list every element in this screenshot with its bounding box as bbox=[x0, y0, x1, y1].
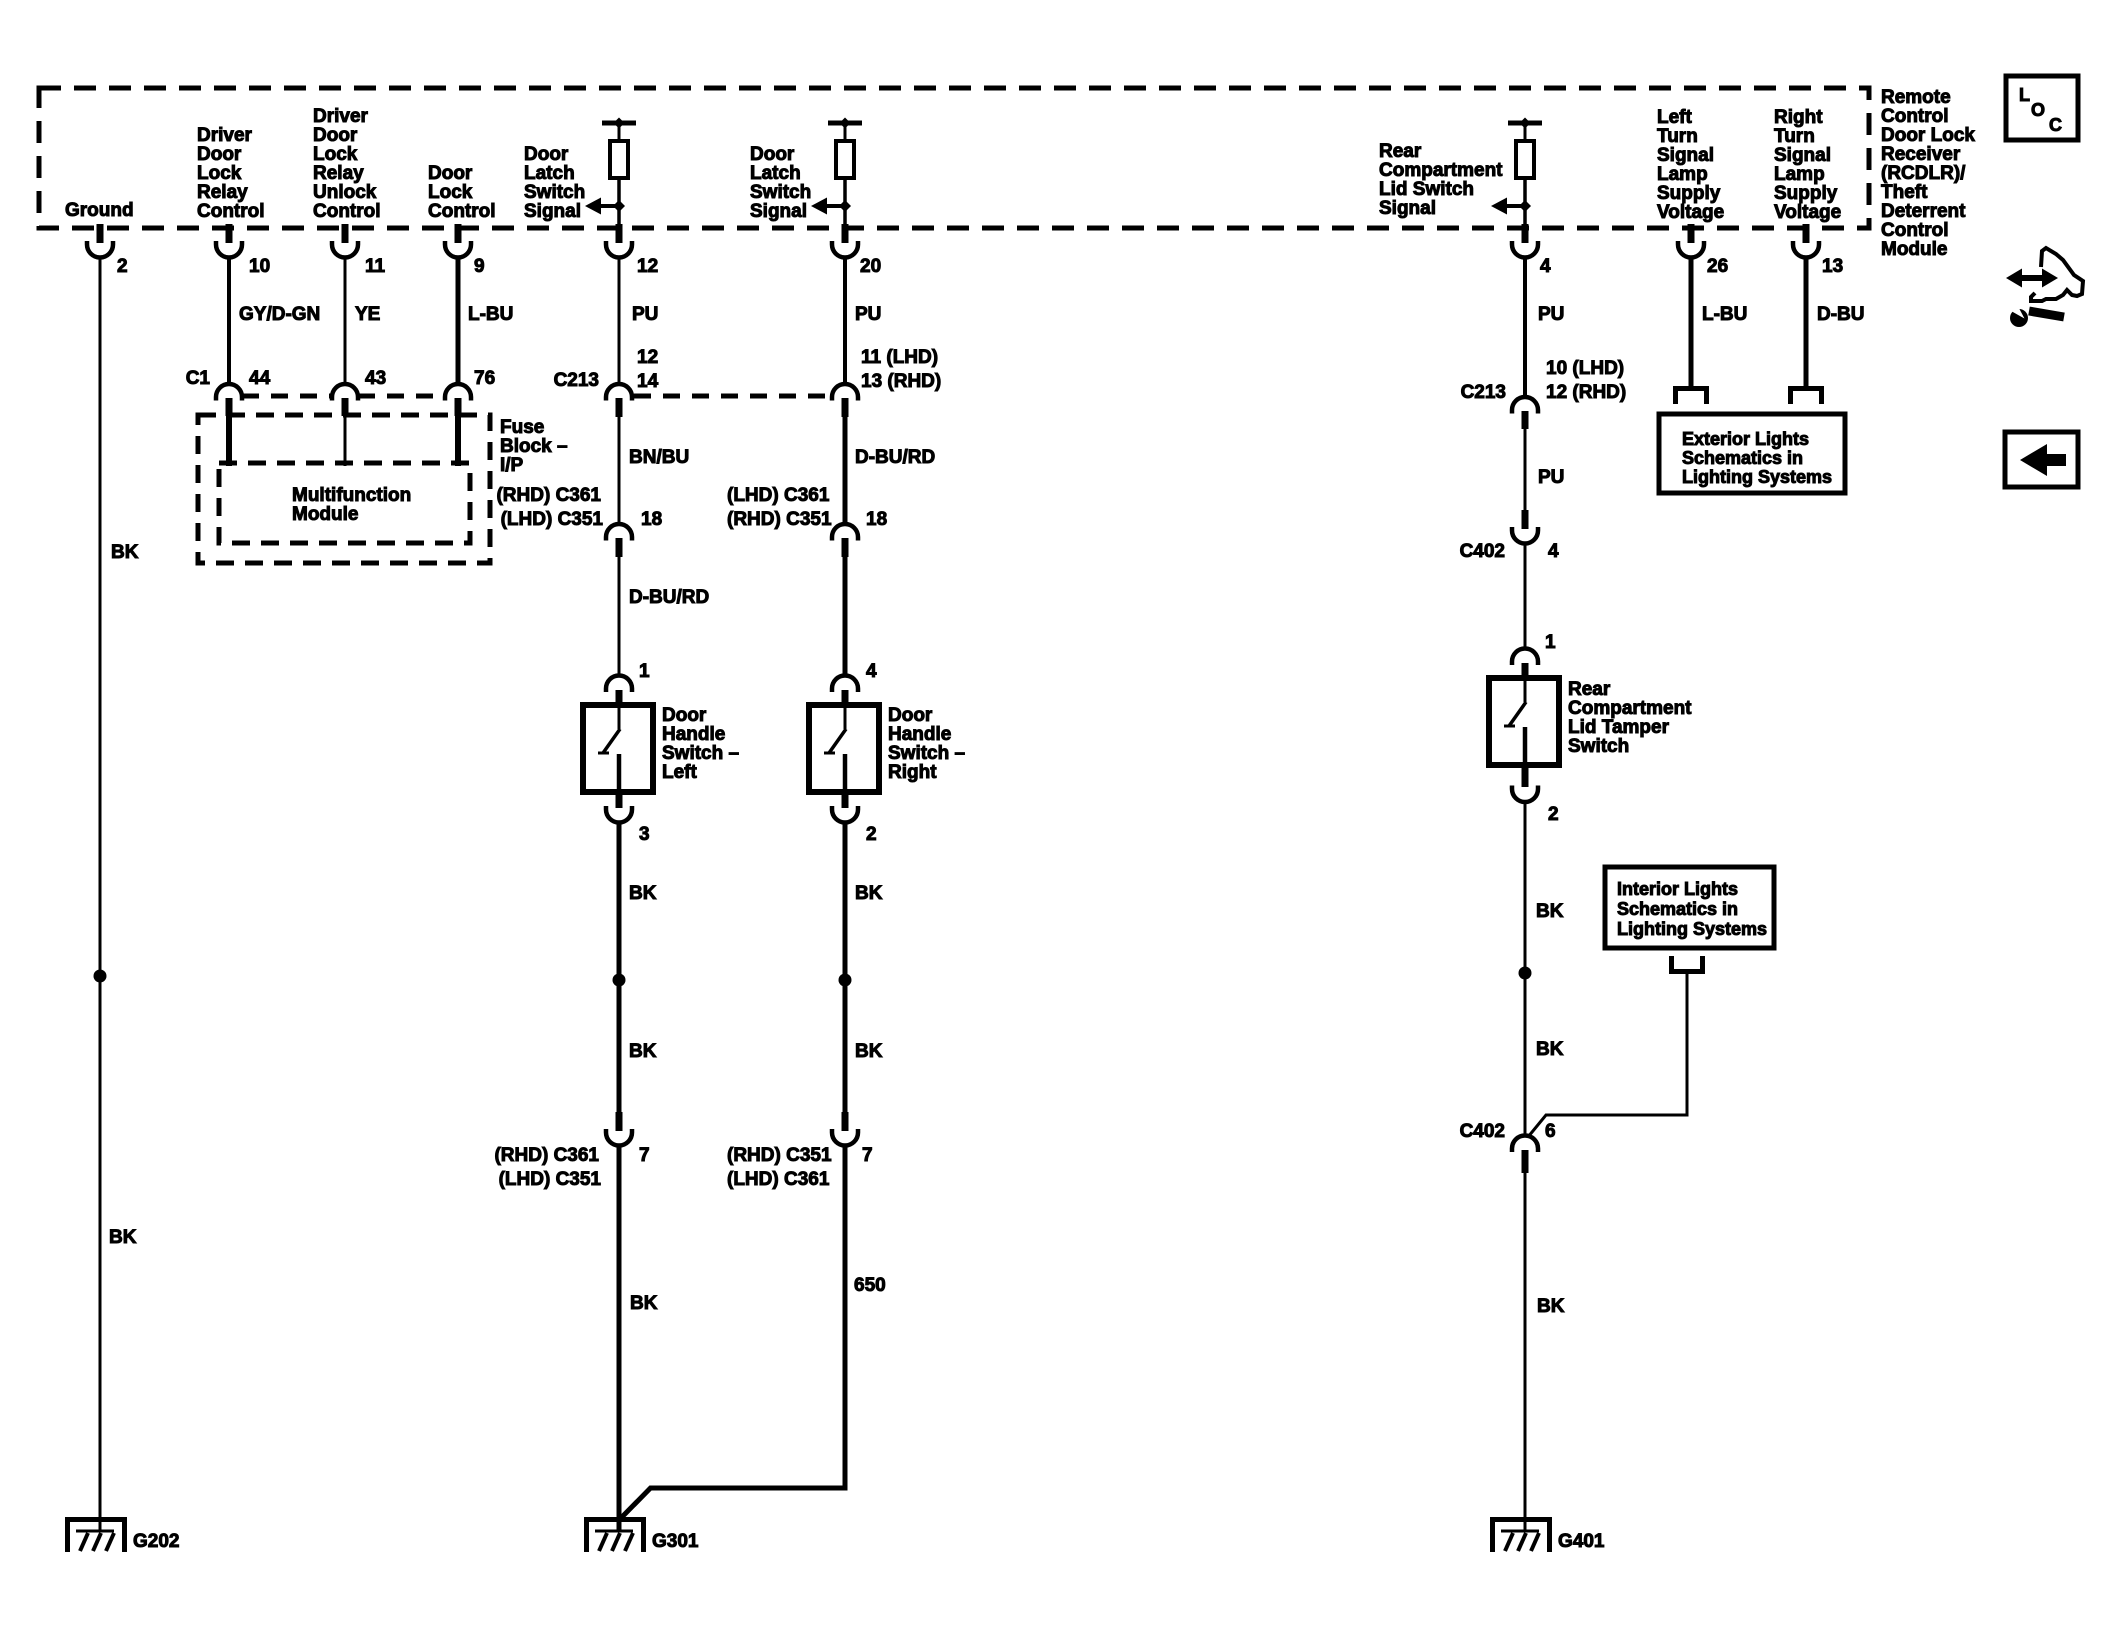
svg-text:BK: BK bbox=[855, 1041, 883, 1062]
svg-text:BK: BK bbox=[855, 883, 883, 904]
svg-text:L: L bbox=[2019, 85, 2030, 105]
svg-text:Latch: Latch bbox=[750, 163, 801, 184]
svg-text:Lamp: Lamp bbox=[1774, 164, 1825, 185]
svg-text:Door: Door bbox=[428, 163, 473, 184]
svg-text:Lock: Lock bbox=[197, 163, 242, 184]
svg-text:Lock: Lock bbox=[313, 144, 358, 165]
svg-text:G202: G202 bbox=[133, 1531, 179, 1552]
svg-text:Control: Control bbox=[1881, 220, 1949, 241]
svg-text:C1: C1 bbox=[186, 368, 211, 389]
svg-text:Schematics in: Schematics in bbox=[1617, 899, 1738, 919]
svg-text:Lid Tamper: Lid Tamper bbox=[1568, 717, 1670, 738]
svg-text:C213: C213 bbox=[1461, 382, 1506, 403]
svg-text:C: C bbox=[2049, 115, 2062, 135]
svg-text:PU: PU bbox=[632, 304, 658, 325]
svg-text:BK: BK bbox=[629, 1041, 657, 1062]
svg-text:Compartment: Compartment bbox=[1568, 698, 1692, 719]
svg-text:(LHD) C351: (LHD) C351 bbox=[501, 509, 604, 530]
svg-text:(RHD) C351: (RHD) C351 bbox=[727, 1145, 832, 1166]
svg-text:YE: YE bbox=[355, 304, 380, 325]
svg-text:(RHD) C361: (RHD) C361 bbox=[494, 1145, 599, 1166]
svg-text:Signal: Signal bbox=[750, 201, 807, 222]
svg-text:Interior Lights: Interior Lights bbox=[1617, 879, 1738, 899]
svg-text:3: 3 bbox=[639, 824, 650, 845]
svg-text:Control: Control bbox=[313, 201, 381, 222]
svg-text:2: 2 bbox=[866, 824, 877, 845]
svg-text:G301: G301 bbox=[652, 1531, 699, 1552]
svg-text:Door: Door bbox=[750, 144, 795, 165]
svg-text:L-BU: L-BU bbox=[1702, 304, 1747, 325]
svg-text:BK: BK bbox=[630, 1293, 658, 1314]
svg-text:Fuse: Fuse bbox=[500, 417, 544, 438]
svg-text:Remote: Remote bbox=[1881, 87, 1951, 108]
svg-text:Door: Door bbox=[524, 144, 569, 165]
svg-text:Lamp: Lamp bbox=[1657, 164, 1708, 185]
svg-text:Module: Module bbox=[1881, 239, 1948, 260]
svg-text:(LHD) C361: (LHD) C361 bbox=[727, 1169, 830, 1190]
svg-text:Door Lock: Door Lock bbox=[1881, 125, 1975, 146]
svg-text:Switch –: Switch – bbox=[888, 743, 965, 764]
svg-text:Left: Left bbox=[662, 762, 698, 783]
svg-text:G401: G401 bbox=[1558, 1531, 1605, 1552]
svg-text:Supply: Supply bbox=[1657, 183, 1721, 204]
svg-text:Door: Door bbox=[313, 125, 358, 146]
svg-text:12 (RHD): 12 (RHD) bbox=[1546, 382, 1626, 403]
svg-text:Signal: Signal bbox=[524, 201, 581, 222]
svg-text:(LHD) C361: (LHD) C361 bbox=[727, 485, 830, 506]
svg-text:BK: BK bbox=[629, 883, 657, 904]
svg-text:C402: C402 bbox=[1460, 1121, 1505, 1142]
svg-text:Switch –: Switch – bbox=[662, 743, 739, 764]
svg-text:Relay: Relay bbox=[313, 163, 364, 184]
svg-text:26: 26 bbox=[1707, 256, 1728, 277]
svg-text:1: 1 bbox=[1545, 632, 1556, 653]
svg-text:4: 4 bbox=[866, 661, 877, 682]
svg-text:Turn: Turn bbox=[1774, 126, 1815, 147]
svg-text:12: 12 bbox=[637, 256, 658, 277]
svg-text:(RHD) C361: (RHD) C361 bbox=[496, 485, 601, 506]
svg-text:12: 12 bbox=[637, 347, 658, 368]
svg-text:Compartment: Compartment bbox=[1379, 160, 1503, 181]
svg-text:Driver: Driver bbox=[197, 125, 253, 146]
svg-text:BK: BK bbox=[1537, 1296, 1565, 1317]
svg-text:Ground: Ground bbox=[65, 200, 134, 221]
svg-text:Module: Module bbox=[292, 504, 359, 525]
svg-text:2: 2 bbox=[117, 256, 128, 277]
svg-text:4: 4 bbox=[1540, 256, 1551, 277]
svg-text:76: 76 bbox=[474, 368, 495, 389]
svg-text:10 (LHD): 10 (LHD) bbox=[1546, 358, 1624, 379]
svg-text:BN/BU: BN/BU bbox=[629, 447, 689, 468]
svg-text:Door: Door bbox=[197, 144, 242, 165]
svg-text:O: O bbox=[2031, 100, 2045, 120]
svg-text:Rear: Rear bbox=[1568, 679, 1611, 700]
svg-text:Supply: Supply bbox=[1774, 183, 1838, 204]
svg-text:I/P: I/P bbox=[500, 455, 524, 476]
svg-text:Right: Right bbox=[888, 762, 937, 783]
svg-text:Multifunction: Multifunction bbox=[292, 485, 411, 506]
svg-text:Lid Switch: Lid Switch bbox=[1379, 179, 1474, 200]
svg-text:11: 11 bbox=[365, 256, 386, 277]
svg-text:10: 10 bbox=[249, 256, 270, 277]
svg-text:L-BU: L-BU bbox=[468, 304, 513, 325]
svg-text:Schematics in: Schematics in bbox=[1682, 448, 1803, 468]
svg-text:Door: Door bbox=[888, 705, 933, 726]
svg-text:(RHD) C351: (RHD) C351 bbox=[727, 509, 832, 530]
svg-text:11 (LHD): 11 (LHD) bbox=[861, 347, 938, 368]
svg-text:D-BU/RD: D-BU/RD bbox=[629, 587, 709, 608]
svg-text:Door: Door bbox=[662, 705, 707, 726]
svg-text:Switch: Switch bbox=[1568, 736, 1629, 757]
svg-text:Theft: Theft bbox=[1881, 182, 1928, 203]
svg-text:1: 1 bbox=[639, 661, 650, 682]
svg-text:PU: PU bbox=[1538, 467, 1564, 488]
svg-text:Control: Control bbox=[428, 201, 496, 222]
svg-text:Control: Control bbox=[1881, 106, 1949, 127]
svg-text:Driver: Driver bbox=[313, 106, 369, 127]
svg-text:Switch: Switch bbox=[750, 182, 811, 203]
svg-text:Signal: Signal bbox=[1379, 198, 1436, 219]
svg-text:BK: BK bbox=[109, 1227, 137, 1248]
svg-text:PU: PU bbox=[1538, 304, 1564, 325]
svg-text:7: 7 bbox=[639, 1145, 650, 1166]
svg-text:18: 18 bbox=[866, 509, 887, 530]
svg-text:13: 13 bbox=[1822, 256, 1843, 277]
svg-text:BK: BK bbox=[1536, 901, 1564, 922]
svg-text:Handle: Handle bbox=[888, 724, 951, 745]
svg-text:9: 9 bbox=[474, 256, 485, 277]
svg-text:Block –: Block – bbox=[500, 436, 568, 457]
svg-text:Rear: Rear bbox=[1379, 141, 1422, 162]
svg-text:44: 44 bbox=[249, 368, 271, 389]
svg-text:Latch: Latch bbox=[524, 163, 575, 184]
svg-text:18: 18 bbox=[641, 509, 662, 530]
svg-text:Lighting Systems: Lighting Systems bbox=[1617, 919, 1767, 939]
svg-text:Signal: Signal bbox=[1657, 145, 1714, 166]
svg-text:Voltage: Voltage bbox=[1657, 202, 1724, 223]
svg-text:Relay: Relay bbox=[197, 182, 248, 203]
svg-text:4: 4 bbox=[1548, 541, 1559, 562]
svg-text:C402: C402 bbox=[1460, 541, 1505, 562]
svg-text:Receiver: Receiver bbox=[1881, 144, 1961, 165]
svg-text:7: 7 bbox=[862, 1145, 873, 1166]
svg-text:Unlock: Unlock bbox=[313, 182, 377, 203]
svg-text:Lock: Lock bbox=[428, 182, 473, 203]
svg-text:Left: Left bbox=[1657, 107, 1693, 128]
svg-text:BK: BK bbox=[1536, 1039, 1564, 1060]
svg-text:13 (RHD): 13 (RHD) bbox=[861, 371, 941, 392]
svg-text:Right: Right bbox=[1774, 107, 1823, 128]
svg-text:2: 2 bbox=[1548, 804, 1559, 825]
svg-text:Switch: Switch bbox=[524, 182, 585, 203]
svg-text:6: 6 bbox=[1545, 1121, 1556, 1142]
svg-text:D-BU/RD: D-BU/RD bbox=[855, 447, 935, 468]
svg-text:Control: Control bbox=[197, 201, 265, 222]
svg-text:C213: C213 bbox=[554, 370, 599, 391]
svg-text:Deterrent: Deterrent bbox=[1881, 201, 1966, 222]
svg-text:43: 43 bbox=[365, 368, 386, 389]
svg-text:D-BU: D-BU bbox=[1817, 304, 1865, 325]
svg-text:PU: PU bbox=[855, 304, 881, 325]
svg-text:Lighting Systems: Lighting Systems bbox=[1682, 467, 1832, 487]
svg-text:Voltage: Voltage bbox=[1774, 202, 1841, 223]
svg-text:GY/D-GN: GY/D-GN bbox=[239, 304, 320, 325]
svg-text:20: 20 bbox=[860, 256, 881, 277]
svg-text:14: 14 bbox=[637, 371, 659, 392]
svg-text:Turn: Turn bbox=[1657, 126, 1698, 147]
svg-text:Signal: Signal bbox=[1774, 145, 1831, 166]
svg-text:(LHD) C351: (LHD) C351 bbox=[499, 1169, 602, 1190]
svg-text:Handle: Handle bbox=[662, 724, 725, 745]
svg-text:Exterior Lights: Exterior Lights bbox=[1682, 429, 1809, 449]
svg-text:(RCDLR)/: (RCDLR)/ bbox=[1881, 163, 1966, 184]
svg-text:650: 650 bbox=[854, 1275, 886, 1296]
svg-text:BK: BK bbox=[111, 542, 139, 563]
